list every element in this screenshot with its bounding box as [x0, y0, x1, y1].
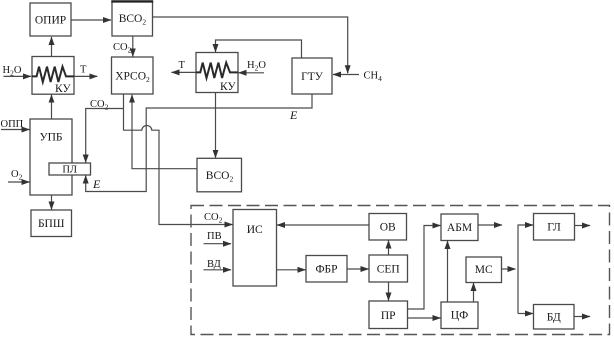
- svg-text:Т: Т: [179, 60, 186, 71]
- wire СЕП to ПР: [388, 282, 390, 301]
- svg-text:КУ: КУ: [220, 81, 236, 93]
- box ГЛ: [534, 214, 575, 241]
- wire junction vertical to ГЛ and БД: [518, 225, 533, 314]
- svg-text:ЦФ: ЦФ: [451, 310, 468, 322]
- box ПР: [369, 301, 408, 329]
- svg-text:ХРСО2: ХРСО2: [115, 71, 150, 85]
- wire ВСО2 to ХРСО2: [132, 36, 134, 57]
- box ФБР: [306, 256, 347, 283]
- wire ФБР to СЕП: [347, 268, 369, 270]
- wire ГТУ top to КУ2 top: [216, 40, 302, 58]
- svg-text:МС: МС: [475, 264, 493, 276]
- svg-text:АБМ: АБМ: [447, 222, 472, 234]
- zigzag coil КУ1: [32, 67, 74, 82]
- wire ХРСО2 bottom СО2 branch to ПЛ: [123, 94, 125, 131]
- box ХРСО2: [112, 57, 154, 94]
- svg-text:ВСО2: ВСО2: [119, 13, 147, 27]
- wire ГТУ bottom Е line to ПЛ: [86, 94, 312, 192]
- wire ЦФ to АБМ: [447, 241, 449, 302]
- wire ВСО2 top to СН4 line: [153, 17, 348, 73]
- wire ОПП into УПБ: [1, 129, 30, 131]
- svg-text:ИС: ИС: [247, 224, 263, 236]
- wire ВСО2 middle to ХРСО2: [132, 95, 197, 169]
- box ОВ: [369, 214, 407, 241]
- box БПШ: [31, 210, 72, 237]
- svg-text:КУ: КУ: [55, 83, 71, 95]
- svg-text:ПР: ПР: [381, 310, 396, 322]
- svg-text:ПЛ: ПЛ: [62, 165, 77, 176]
- box КУ 2 heat exchanger: [196, 53, 238, 93]
- wire УПБ to БПШ: [51, 195, 53, 210]
- wire ОВ to ИС: [277, 224, 369, 226]
- wire УПБ to КУ1: [51, 95, 53, 119]
- box ПЛ: [49, 163, 91, 175]
- wire ВД into ИС: [204, 269, 232, 271]
- svg-text:ПВ: ПВ: [207, 231, 222, 242]
- svg-text:ВД: ВД: [207, 259, 221, 270]
- wire ИС to ФБР: [277, 269, 306, 271]
- svg-text:Е: Е: [92, 177, 101, 191]
- wire КУ2 to ВСО2 middle: [215, 93, 217, 158]
- box ГТУ: [292, 58, 332, 94]
- svg-text:ГЛ: ГЛ: [547, 222, 561, 234]
- box СЕП: [369, 255, 408, 282]
- wire Н2О into КУ2: [239, 72, 265, 74]
- box ВСО2 top: [112, 2, 153, 37]
- box МС: [466, 257, 502, 283]
- wire ГЛ output: [575, 225, 591, 227]
- svg-text:ФБР: ФБР: [315, 264, 337, 276]
- dashed boundary box: [191, 206, 610, 335]
- wire Н2О into КУ1: [4, 75, 32, 77]
- box ОПИР: [30, 3, 71, 36]
- box АБМ: [441, 214, 478, 241]
- svg-text:Т: Т: [80, 64, 87, 75]
- svg-text:ОПИР: ОПИР: [35, 15, 66, 27]
- svg-text:ВСО2: ВСО2: [206, 170, 234, 184]
- box КУ 1 heat exchanger: [32, 57, 74, 95]
- wire СН4 into ГТУ: [333, 74, 359, 76]
- wire МС output arrow: [502, 268, 516, 270]
- wire ПР to АБМ: [408, 226, 441, 310]
- box ЦФ: [441, 302, 478, 329]
- box УПБ: [30, 119, 72, 195]
- wire Т out of КУ1: [74, 75, 97, 77]
- wire КУ1 to ОПИР: [51, 37, 53, 56]
- wire ПР to ЦФ: [408, 317, 441, 319]
- svg-text:УПБ: УПБ: [39, 132, 62, 144]
- svg-text:Е: Е: [289, 108, 298, 122]
- svg-text:СЕП: СЕП: [377, 264, 400, 276]
- box ВСО2 middle: [197, 158, 242, 192]
- svg-text:БПШ: БПШ: [38, 218, 65, 230]
- svg-text:ГТУ: ГТУ: [301, 71, 324, 83]
- svg-text:ОВ: ОВ: [380, 222, 396, 234]
- zigzag coil КУ2: [196, 63, 238, 78]
- wire Т out of КУ2: [172, 71, 197, 73]
- box БД: [534, 305, 575, 330]
- box ИС: [233, 210, 277, 287]
- wire О2 into УПБ: [8, 181, 30, 183]
- wire ЦФ to МС: [473, 283, 475, 302]
- svg-text:БД: БД: [547, 312, 561, 324]
- svg-text:ОПП: ОПП: [1, 119, 24, 130]
- wire СЕП to ОВ: [388, 241, 390, 256]
- wire СО2 long run to ИС with hop: [124, 125, 233, 224]
- wire АБМ output arrow: [478, 224, 502, 226]
- wire ОПИР to ВСО2: [71, 19, 111, 21]
- wire ПВ into ИС: [204, 243, 232, 245]
- wire БД output: [574, 316, 590, 318]
